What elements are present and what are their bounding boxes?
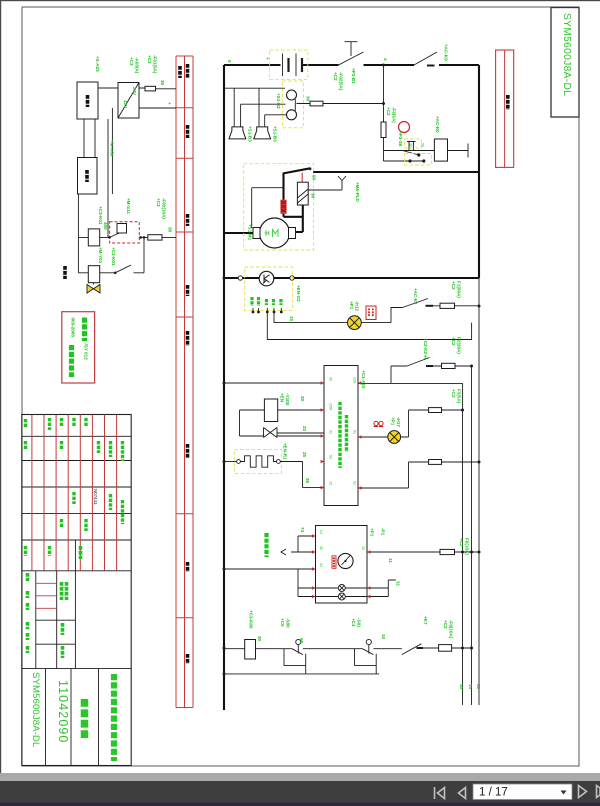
svg-text:15W: 15W [329, 403, 333, 411]
svg-text:+EN: +EN [280, 393, 285, 403]
svg-text:-P1: -P1 [381, 528, 386, 536]
svg-text:25: 25 [302, 452, 307, 458]
svg-text:24: 24 [319, 530, 323, 534]
svg-text:+C3: +C3 [147, 55, 152, 64]
svg-text:30: 30 [306, 96, 311, 102]
svg-text:+M-S11: +M-S11 [126, 198, 131, 214]
svg-text:+AC-K1: +AC-K1 [413, 288, 418, 305]
svg-text:SYM5600J8A-DL: SYM5600J8A-DL [561, 13, 572, 96]
svg-text:30: 30 [319, 546, 323, 550]
svg-text:+P1: +P1 [370, 528, 375, 537]
svg-text:15A: 15A [353, 377, 357, 384]
svg-text:+C2: +C2 [451, 281, 456, 290]
svg-text:+C3: +C3 [156, 198, 161, 207]
svg-text:+S1-B3: +S1-B3 [248, 126, 253, 142]
svg-text:SYM5600J8A-DL: SYM5600J8A-DL [30, 672, 41, 748]
svg-text:+C3: +C3 [129, 57, 134, 66]
svg-text:+M-A06: +M-A06 [110, 140, 115, 157]
svg-text:+C3-K05: +C3-K05 [249, 610, 254, 629]
svg-text:+EN-R1: +EN-R1 [283, 443, 288, 460]
svg-text:12V: 12V [123, 100, 128, 109]
svg-text:/SY 012: /SY 012 [84, 344, 89, 361]
svg-text:+S1-B3: +S1-B3 [273, 126, 278, 142]
svg-text:+C2: +C2 [451, 337, 456, 346]
svg-text:+S-A03: +S-A03 [95, 56, 100, 72]
svg-text:+P2-B1: +P2-B1 [351, 68, 356, 84]
svg-text:-F02(5A): -F02(5A) [339, 72, 344, 91]
svg-text:30: 30 [311, 193, 316, 199]
svg-text:24V: 24V [132, 87, 137, 96]
svg-text:+S1-B2: +S1-B2 [276, 93, 281, 109]
svg-text:10: 10 [381, 634, 386, 640]
svg-text:31: 31 [476, 684, 481, 690]
svg-text:+K7: +K7 [423, 616, 428, 625]
svg-text:-Y100: -Y100 [285, 393, 290, 406]
svg-text:1 / 17: 1 / 17 [479, 787, 508, 799]
svg-text:005-2008: 005-2008 [71, 318, 76, 338]
svg-text:30: 30 [257, 636, 262, 642]
svg-text:74: 74 [300, 527, 305, 533]
svg-text:-A03(A): -A03(A) [135, 57, 140, 74]
svg-text:-S81: -S81 [357, 618, 362, 628]
svg-text:a: a [383, 58, 388, 61]
svg-text:15: 15 [329, 481, 333, 485]
svg-text:-H17: -H17 [396, 417, 401, 427]
svg-text:+C5: +C5 [280, 618, 285, 627]
svg-text:+AC-K0: +AC-K0 [435, 116, 440, 133]
svg-text:-S80: -S80 [286, 618, 291, 628]
svg-text:26: 26 [305, 478, 310, 484]
svg-text:30: 30 [409, 143, 413, 147]
svg-text:31: 31 [396, 581, 401, 587]
svg-text:+: + [167, 102, 172, 105]
svg-text:+C2: +C2 [386, 107, 391, 116]
svg-text:50: 50 [299, 638, 304, 644]
svg-text:+C1-A10: +C1-A10 [361, 370, 366, 389]
svg-text:+EN-G2: +EN-G2 [296, 285, 301, 302]
svg-text:-F6(10A): -F6(10A) [449, 620, 454, 639]
svg-text:F3(5A): F3(5A) [457, 389, 462, 404]
svg-text:30: 30 [168, 227, 173, 233]
svg-text:11: 11 [388, 558, 393, 563]
svg-text:-F02(10A): -F02(10A) [162, 198, 167, 219]
svg-text:61: 61 [353, 430, 357, 434]
svg-text:+: + [265, 57, 270, 60]
svg-text:+C2: +C2 [451, 389, 456, 398]
svg-text:+P1: +P1 [349, 301, 354, 310]
svg-text:-F01(5A): -F01(5A) [153, 55, 158, 74]
svg-text:F5(10A): F5(10A) [465, 538, 470, 555]
svg-text:30: 30 [459, 684, 464, 690]
svg-text:30: 30 [160, 80, 165, 86]
svg-text:+C2: +C2 [459, 538, 464, 547]
svg-text:50: 50 [421, 143, 425, 147]
svg-text:+P3-S6: +P3-S6 [398, 131, 403, 147]
svg-text:31: 31 [319, 563, 323, 567]
svg-text:+S1-M1: +S1-M1 [248, 224, 253, 241]
svg-text:+C2-K2-H: +C2-K2-H [423, 338, 428, 359]
svg-text:+AC-K9: +AC-K9 [444, 44, 449, 61]
svg-text:50: 50 [329, 455, 333, 459]
svg-text:F1(50A): F1(50A) [457, 281, 462, 298]
svg-text:11042090: 11042090 [56, 680, 70, 744]
svg-text:+C3-K01: +C3-K01 [111, 247, 116, 266]
svg-text:+M6-PLD: +M6-PLD [355, 182, 360, 202]
svg-text:20: 20 [300, 396, 305, 402]
svg-text:-F6(5A): -F6(5A) [392, 107, 397, 123]
svg-text:31: 31 [329, 430, 333, 434]
svg-text:-H12: -H12 [355, 301, 360, 311]
svg-text:+C4: +C4 [351, 618, 356, 627]
svg-text:0: 0 [227, 60, 232, 63]
svg-text:N07443: N07443 [93, 489, 98, 505]
svg-text:30: 30 [329, 377, 333, 381]
svg-text:F2(20A): F2(20A) [457, 337, 462, 354]
svg-text:+C2: +C2 [333, 72, 338, 81]
svg-text:400: 400 [103, 222, 108, 230]
svg-text:23: 23 [302, 426, 307, 432]
svg-text:+M-Y01: +M-Y01 [98, 247, 103, 264]
svg-text:15: 15 [468, 684, 473, 690]
svg-text:+C3-K01: +C3-K01 [98, 206, 103, 225]
svg-text:+P1: +P1 [391, 417, 396, 426]
svg-text:+C2: +C2 [443, 620, 448, 629]
svg-text:50: 50 [312, 175, 317, 181]
svg-text:15: 15 [289, 316, 294, 322]
svg-text:31: 31 [353, 481, 357, 485]
svg-text:15: 15 [361, 546, 365, 550]
